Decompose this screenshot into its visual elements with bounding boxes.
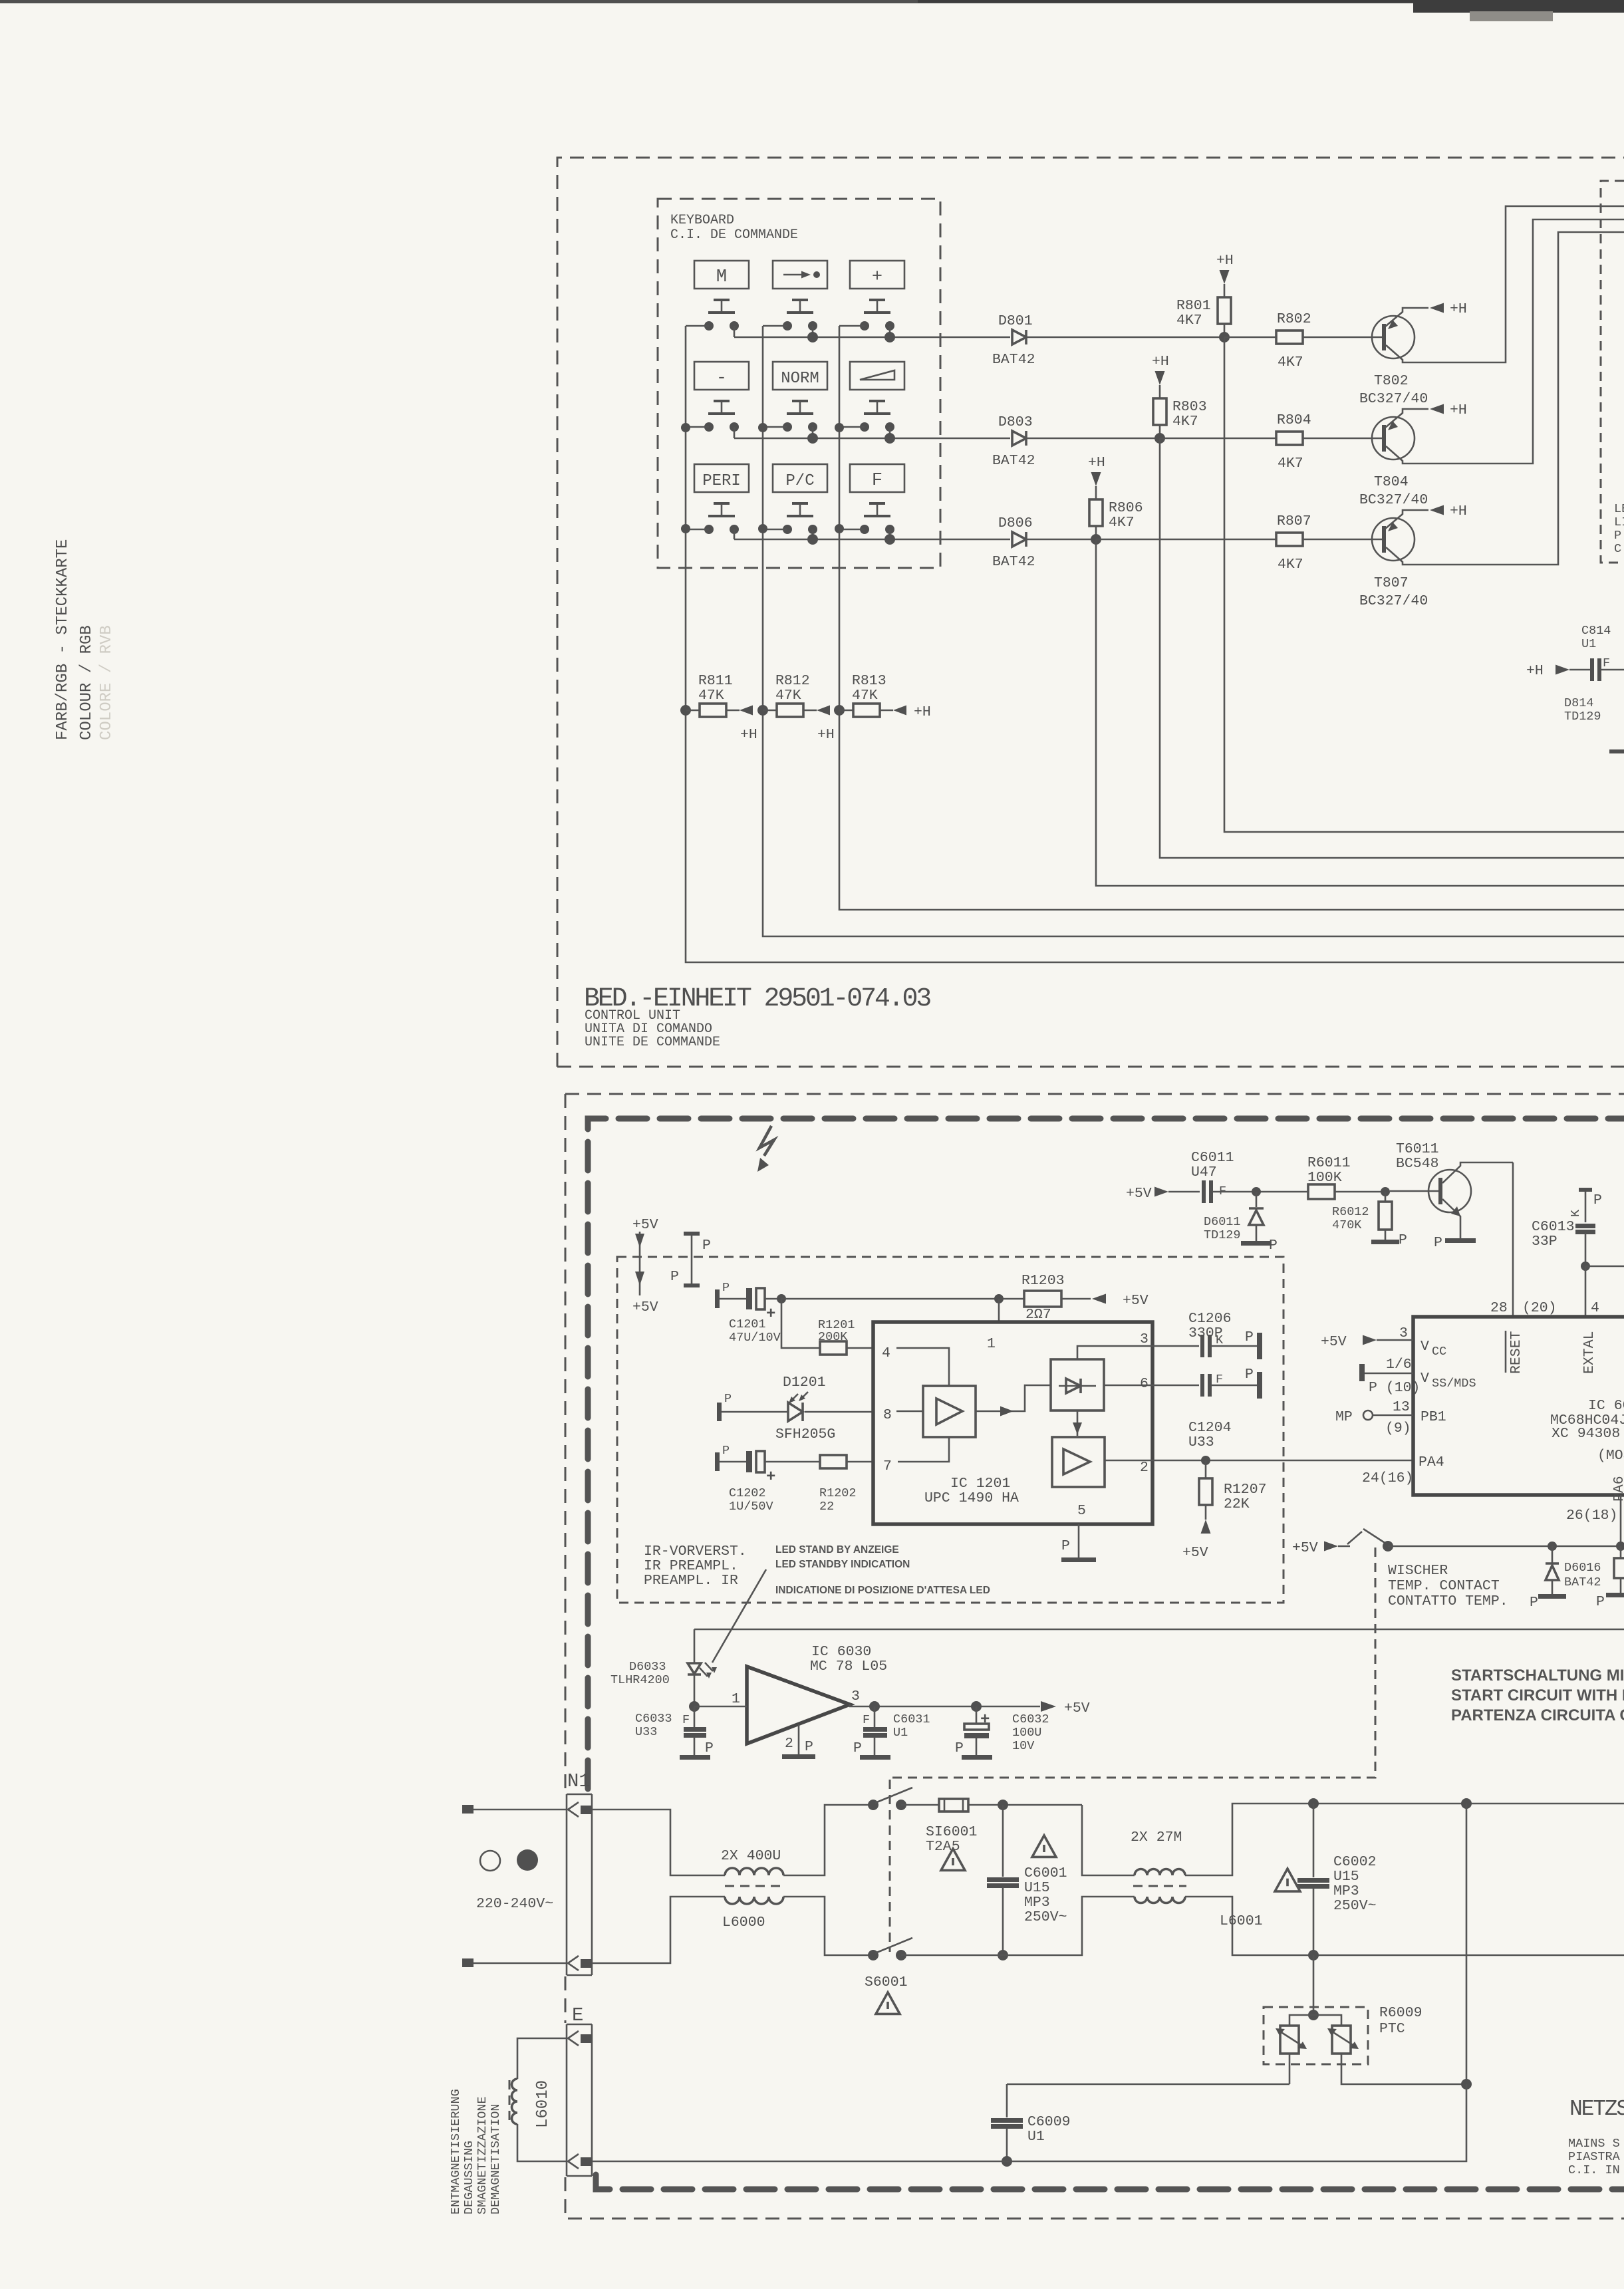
svg-text:F: F <box>682 1713 690 1727</box>
wire diode box down to amp2 <box>1077 1411 1079 1436</box>
svg-text:R1202: R1202 <box>819 1486 857 1500</box>
button - <box>694 362 749 390</box>
button + <box>850 261 904 289</box>
resistor R802 4K7 <box>1224 337 1276 338</box>
svg-text:MP: MP <box>1335 1409 1353 1425</box>
svg-text:+5V: +5V <box>1292 1540 1318 1556</box>
svg-text:2X 27M: 2X 27M <box>1131 1829 1182 1845</box>
svg-text:UNITE DE COMMANDE: UNITE DE COMMANDE <box>585 1035 720 1050</box>
PTC bottoms <box>1289 2054 1291 2084</box>
svg-text:28: 28 <box>1490 1300 1508 1316</box>
svg-text:+: + <box>766 1468 775 1486</box>
node R1207 <box>1201 1456 1210 1465</box>
wire pin4 down <box>1585 1266 1587 1317</box>
side text FARB/RGB-STECKKARTE rotated <box>54 539 116 740</box>
svg-text:7: 7 <box>883 1458 892 1474</box>
svg-text:2X 400U: 2X 400U <box>721 1848 781 1864</box>
diode D6011 TD129 <box>1256 1192 1258 1207</box>
wire contact drop r3c3 <box>889 529 891 539</box>
capacitor C6009 U1 <box>1006 2084 1008 2117</box>
photodiode D1201 SFH205G <box>717 1403 722 1421</box>
svg-text:R813: R813 <box>852 673 886 689</box>
svg-text:KEYBOARD: KEYBOARD <box>670 213 734 228</box>
svg-text:FARB/RGB - STECKKARTE: FARB/RGB - STECKKARTE <box>54 539 72 740</box>
capacitor C6011 U47 <box>1202 1180 1206 1203</box>
svg-text:4K7: 4K7 <box>1172 414 1198 430</box>
node R806 junction <box>1091 534 1101 545</box>
wire T807 collector to plug <box>1386 232 1624 565</box>
LED plug dashed box top right <box>1601 181 1624 563</box>
key switch contacts r3c3 <box>860 525 869 534</box>
wire E return line <box>592 2084 1466 2161</box>
svg-text:U33: U33 <box>1188 1434 1214 1450</box>
svg-text:C6001: C6001 <box>1024 1865 1067 1881</box>
transistor T804 BC327/40 PNP <box>1372 417 1415 460</box>
button F <box>850 464 904 492</box>
svg-text:IC 60: IC 60 <box>1588 1398 1624 1414</box>
svg-text:P: P <box>1614 529 1621 543</box>
svg-text:C.I. DE COMMANDE: C.I. DE COMMANDE <box>670 227 798 243</box>
svg-text:P: P <box>722 1281 730 1295</box>
svg-text:COLOUR / RGB: COLOUR / RGB <box>78 625 96 740</box>
node row3 key3 <box>884 534 895 545</box>
node C6001 top <box>998 1800 1008 1810</box>
svg-text:BAT42: BAT42 <box>992 554 1035 570</box>
wire T6011 collector to pin28 <box>1512 1162 1514 1317</box>
svg-text:250V~: 250V~ <box>1333 1898 1377 1914</box>
node pin4 <box>1581 1262 1590 1271</box>
button PERI <box>694 464 749 492</box>
PTC pair <box>1289 2015 1313 2026</box>
resistor R812 47K <box>757 705 768 716</box>
node R801 junction <box>1219 332 1230 342</box>
svg-text:R801: R801 <box>1176 298 1211 314</box>
mains terminal top <box>462 1805 474 1814</box>
node R803 junction <box>1154 433 1165 444</box>
E pin top <box>568 2031 579 2046</box>
wire top mains to L6001 <box>1082 1805 1135 1875</box>
mains switch S6001 pole 2 <box>868 1950 879 1960</box>
wire C1201 node to R1201 <box>781 1299 820 1348</box>
svg-text:PTC: PTC <box>1379 2021 1405 2037</box>
pin VSS/MDS <box>1359 1364 1365 1381</box>
svg-text:4K7: 4K7 <box>1176 313 1202 329</box>
wire amp2 to pin2 <box>1105 1460 1152 1462</box>
node row1 key2 <box>807 332 818 342</box>
node row1 key3 <box>884 332 895 342</box>
svg-text:P: P <box>724 1392 732 1406</box>
svg-text:+H: +H <box>740 727 757 743</box>
svg-text:P (10): P (10) <box>1369 1380 1420 1396</box>
svg-text:8: 8 <box>883 1407 892 1423</box>
resistor at right edge <box>1620 1546 1622 1558</box>
svg-text:L6000: L6000 <box>722 1915 765 1931</box>
svg-text:MP3: MP3 <box>1024 1895 1050 1911</box>
svg-text:P: P <box>1061 1538 1070 1554</box>
resistor R801 4K7 <box>1218 297 1231 324</box>
wire standby rail <box>694 1629 1624 1631</box>
svg-text:ENTMAGNETISIERUNG: ENTMAGNETISIERUNG <box>449 2089 463 2215</box>
key switch actuator r1c3 <box>869 299 885 301</box>
svg-text:BC327/40: BC327/40 <box>1359 492 1428 508</box>
node T6011 base <box>1381 1187 1390 1196</box>
svg-text:P: P <box>702 1238 711 1254</box>
wire contact drop r2c1 <box>734 427 736 438</box>
svg-text:P/C: P/C <box>785 472 814 490</box>
svg-text:PA6: PA6 <box>1611 1476 1624 1502</box>
svg-text:COLORE / RVB: COLORE / RVB <box>98 625 116 740</box>
svg-text:P: P <box>1245 1329 1254 1345</box>
node D6011 <box>1252 1187 1261 1196</box>
resistor R813 47K <box>834 705 845 716</box>
wire D801 to pull-up <box>1026 337 1224 338</box>
svg-text:4K7: 4K7 <box>1278 456 1303 471</box>
svg-text:C.I. IN: C.I. IN <box>1568 2163 1620 2177</box>
svg-text:SS/MDS: SS/MDS <box>1432 1377 1476 1391</box>
wire keyboard column 2 <box>763 326 1624 936</box>
svg-text:NETZS: NETZS <box>1569 2097 1624 2121</box>
N1 pin top <box>568 1802 579 1817</box>
svg-text:T802: T802 <box>1374 373 1409 389</box>
svg-text:P: P <box>1530 1595 1538 1611</box>
node C6002 top <box>1308 1798 1319 1809</box>
detector diode box <box>1051 1359 1104 1411</box>
svg-text:V: V <box>1421 1371 1429 1387</box>
svg-text:R807: R807 <box>1277 513 1311 529</box>
svg-text:U15: U15 <box>1333 1869 1359 1885</box>
svg-text:P: P <box>1269 1238 1278 1254</box>
key switch actuator r3c1 <box>714 502 730 505</box>
capacitor C6002 U15 MP3 250V <box>1313 1804 1315 1877</box>
svg-text:D803: D803 <box>998 414 1033 430</box>
svg-text:E: E <box>572 2004 583 2026</box>
wire left contact tie r3c2 <box>763 529 787 531</box>
svg-text:47U/10V: 47U/10V <box>729 1331 781 1345</box>
capacitor C1201 47U/10V <box>715 1289 720 1308</box>
wire keyboard column 1 <box>686 326 1624 962</box>
wire pin 26 down to temp contact line <box>1620 1495 1622 1546</box>
warning triangle C6002 <box>1275 1869 1300 1891</box>
R6009 PTC dashed box <box>1264 2007 1368 2064</box>
svg-text:+H: +H <box>1526 663 1544 679</box>
svg-text:U1: U1 <box>1581 637 1596 651</box>
node C6031 <box>869 1701 880 1712</box>
key switch actuator r2c3 <box>869 400 885 402</box>
IC1201 UPC 1490 HA box <box>873 1322 1152 1524</box>
svg-text:R6011: R6011 <box>1307 1155 1351 1171</box>
start circuit dashed box <box>890 1548 1375 1778</box>
svg-text:+H: +H <box>1088 455 1105 471</box>
svg-text:+5V: +5V <box>1182 1545 1208 1561</box>
wire left contact tie r2c1 <box>686 426 709 428</box>
button arrow-dot <box>773 261 827 289</box>
svg-text:P: P <box>1593 1192 1602 1208</box>
svg-text:LE: LE <box>1614 502 1624 516</box>
svg-text:+H: +H <box>1216 253 1234 269</box>
svg-text:CC: CC <box>1432 1345 1446 1359</box>
svg-text:4K7: 4K7 <box>1278 557 1303 573</box>
key switch contacts r1c2 <box>783 321 792 331</box>
svg-text:100U: 100U <box>1012 1726 1041 1740</box>
svg-text:220-240V~: 220-240V~ <box>476 1896 553 1912</box>
node column 1 row3 <box>681 524 690 533</box>
wire right vertical to PTC node <box>1466 1804 1468 2084</box>
svg-text:C1204: C1204 <box>1188 1420 1232 1436</box>
svg-text:PB1: PB1 <box>1421 1409 1446 1425</box>
svg-text:P: P <box>805 1739 813 1755</box>
svg-text:2: 2 <box>1140 1460 1149 1476</box>
node right edge resistor <box>1616 1542 1624 1551</box>
svg-text:22K: 22K <box>1224 1496 1250 1512</box>
wire bottom mains to L6001 <box>901 1897 1135 1955</box>
svg-text:SMAGNETIZZAZIONE: SMAGNETIZZAZIONE <box>475 2096 489 2215</box>
svg-text:D6033: D6033 <box>629 1660 666 1674</box>
svg-text:F: F <box>1603 656 1610 670</box>
svg-text:INDICATIONE DI POSIZIONE D'ATT: INDICATIONE DI POSIZIONE D'ATTESA LED <box>775 1585 990 1596</box>
E pin bottom <box>568 2154 579 2169</box>
svg-text:TD129: TD129 <box>1204 1228 1241 1242</box>
warning triangle S6001 <box>876 1992 900 2014</box>
key switch actuator r1c1 <box>714 299 730 301</box>
svg-text:-: - <box>716 368 727 388</box>
wire R807 to T807 base <box>1303 539 1384 541</box>
svg-text:U33: U33 <box>635 1725 657 1739</box>
svg-text:SI6001: SI6001 <box>926 1824 977 1840</box>
wire left contact tie r1c1 <box>686 325 709 327</box>
amplifier stage 2 <box>1052 1437 1105 1487</box>
node D6016 <box>1548 1542 1557 1551</box>
svg-text:3: 3 <box>851 1688 860 1704</box>
key switch contacts r2c2 <box>783 422 792 432</box>
node PTC right <box>1461 2079 1472 2089</box>
svg-text:IR PREAMPL.: IR PREAMPL. <box>644 1558 738 1574</box>
capacitor C1202 1U/50V <box>715 1452 720 1471</box>
resistor R807 4K7 <box>1096 539 1276 541</box>
svg-text:T807: T807 <box>1374 575 1409 591</box>
svg-text:BC327/40: BC327/40 <box>1359 593 1428 609</box>
isolation thick dashed line bottom <box>596 2175 1624 2189</box>
svg-text:P: P <box>705 1740 714 1756</box>
N1 pin bottom <box>568 1956 579 1970</box>
svg-text:3: 3 <box>1140 1331 1149 1347</box>
svg-text:4K7: 4K7 <box>1109 515 1135 531</box>
svg-text:MP3: MP3 <box>1333 1883 1359 1899</box>
svg-text:C814: C814 <box>1581 624 1611 638</box>
node IC6030 input <box>689 1701 700 1712</box>
svg-text:24(16): 24(16) <box>1362 1470 1413 1486</box>
svg-text:D814: D814 <box>1564 696 1593 710</box>
svg-text:+H: +H <box>914 704 931 720</box>
svg-text:+: + <box>872 267 882 287</box>
wire left contact tie r2c2 <box>763 426 787 428</box>
svg-text:R6009: R6009 <box>1379 2005 1422 2021</box>
wire left contact tie r3c1 <box>686 529 709 531</box>
wire contact drop r1c1 <box>734 326 736 337</box>
svg-text:MAINS S: MAINS S <box>1568 2137 1620 2151</box>
svg-text:F: F <box>863 1713 870 1727</box>
svg-text:D806: D806 <box>998 515 1033 531</box>
resistor R803 4K7 <box>1153 398 1166 425</box>
svg-text:C6033: C6033 <box>635 1712 672 1726</box>
node column 2 row2 <box>758 423 767 432</box>
svg-text:R811: R811 <box>698 673 733 689</box>
wire keyboard row 1 to diode D801 <box>734 337 1010 338</box>
svg-text:R804: R804 <box>1277 412 1311 428</box>
svg-text:5: 5 <box>1077 1503 1086 1519</box>
svg-text:D6011: D6011 <box>1204 1215 1241 1229</box>
key switch contacts r2c1 <box>704 422 714 432</box>
wire keyboard row 2 to diode D803 <box>734 438 1010 440</box>
svg-text:C6011: C6011 <box>1191 1150 1234 1166</box>
svg-text:TEMP. CONTACT: TEMP. CONTACT <box>1388 1578 1500 1594</box>
svg-text:LED STAND BY ANZEIGE: LED STAND BY ANZEIGE <box>775 1544 899 1555</box>
wire L6001 top out <box>1185 1804 1624 1875</box>
svg-text:C1201: C1201 <box>729 1317 766 1331</box>
svg-text:PERI: PERI <box>702 472 741 490</box>
svg-text:START CIRCUIT WITH I: START CIRCUIT WITH I <box>1451 1686 1624 1704</box>
svg-text:D6016: D6016 <box>1564 1561 1601 1575</box>
wire T802 collector to plug <box>1386 206 1624 362</box>
svg-text:33P: 33P <box>1532 1234 1557 1250</box>
svg-text:PIASTRA: PIASTRA <box>1568 2150 1621 2164</box>
svg-text:P: P <box>670 1269 679 1285</box>
svg-text:T804: T804 <box>1374 474 1409 490</box>
svg-text:IR-VORVERST.: IR-VORVERST. <box>644 1544 747 1559</box>
node pin1 rail <box>994 1294 1004 1303</box>
capacitor C1204 U33 on pin6 <box>1152 1385 1199 1387</box>
key switch contacts r1c1 <box>704 321 714 331</box>
switch link dashed <box>889 1780 891 1952</box>
key switch contacts r1c3 <box>860 321 869 331</box>
wire D803 to pull-up <box>1026 438 1160 440</box>
svg-text:R1207: R1207 <box>1224 1482 1267 1498</box>
svg-text:47K: 47K <box>775 688 801 704</box>
svg-text:U1: U1 <box>1027 2129 1045 2145</box>
node C1201 <box>777 1294 786 1303</box>
svg-text:D1201: D1201 <box>783 1375 826 1391</box>
svg-text:470K: 470K <box>1332 1218 1362 1232</box>
svg-text:L6010: L6010 <box>534 2080 552 2128</box>
power unit dashed box <box>565 1093 1624 1095</box>
wire R801 node down to bus <box>1224 337 1624 832</box>
svg-text:26(18): 26(18) <box>1566 1508 1617 1524</box>
svg-text:TLHR4200: TLHR4200 <box>610 1673 670 1687</box>
warning triangle C6001 <box>1032 1835 1056 1857</box>
node top rail right <box>1461 1798 1472 1809</box>
wire D806 to pull-up <box>1026 539 1096 541</box>
wire pin1 drop <box>998 1299 1000 1322</box>
svg-text:P: P <box>955 1740 964 1756</box>
svg-text:(9): (9) <box>1385 1420 1411 1436</box>
svg-text:N1: N1 <box>567 1770 591 1792</box>
wire contact drop r2c2 <box>812 427 814 438</box>
svg-text:C6032: C6032 <box>1012 1712 1049 1726</box>
resistor R6012 470K <box>1385 1192 1387 1202</box>
svg-text:M: M <box>716 267 727 287</box>
button NORM <box>773 362 827 390</box>
P-P feedthrough stub <box>684 1232 700 1236</box>
svg-text:T6011: T6011 <box>1396 1141 1439 1157</box>
ground P for D814 <box>1609 749 1624 753</box>
key switch actuator r1c2 <box>792 299 808 301</box>
svg-text:IC 6030: IC 6030 <box>811 1644 871 1660</box>
svg-text:NORM: NORM <box>781 370 819 388</box>
svg-text:1: 1 <box>987 1336 996 1352</box>
resistor R1202 22 <box>820 1455 847 1468</box>
fuse SI6001 T2A5 <box>901 1804 939 1806</box>
svg-text:D801: D801 <box>998 313 1033 329</box>
wire amp1 output <box>976 1385 1051 1411</box>
svg-text:R6012: R6012 <box>1332 1205 1369 1219</box>
node column 3 row3 <box>835 524 844 533</box>
callout line to LED <box>712 1569 766 1663</box>
wire L6001 bottom out <box>1185 1897 1624 1955</box>
node C6001 bottom <box>998 1950 1008 1960</box>
svg-text:BAT42: BAT42 <box>992 352 1035 368</box>
key switch contacts r3c1 <box>704 525 714 534</box>
svg-text:4: 4 <box>882 1345 890 1361</box>
svg-text:+H: +H <box>1152 354 1169 370</box>
svg-text:UPC 1490 HA: UPC 1490 HA <box>924 1490 1019 1506</box>
svg-text:4: 4 <box>1591 1300 1599 1316</box>
wire R803 node down to bus <box>1160 438 1624 858</box>
wire T804 collector to plug <box>1386 219 1624 464</box>
key switch actuator r3c3 <box>869 502 885 505</box>
pin 2 ground IC6030 <box>798 1724 800 1754</box>
svg-text:C6013: C6013 <box>1532 1219 1575 1235</box>
svg-text:P: P <box>1596 1594 1605 1610</box>
svg-text:V: V <box>1421 1339 1429 1355</box>
degaussing caption rotated <box>449 2089 503 2215</box>
mains terminal bottom <box>462 1958 474 1967</box>
wire top rail to R1203 <box>781 1298 1024 1300</box>
svg-text:+H: +H <box>1450 301 1467 317</box>
svg-text:BC327/40: BC327/40 <box>1359 391 1428 407</box>
svg-text:+5V: +5V <box>632 1217 658 1233</box>
diode D803 BAT42 <box>1012 431 1026 446</box>
svg-text:PREAMPL. IR: PREAMPL. IR <box>644 1573 738 1589</box>
node C6002 bottom <box>1308 1950 1319 1960</box>
svg-text:4K7: 4K7 <box>1278 354 1303 370</box>
wire left contact tie r1c3 <box>839 325 865 327</box>
svg-text:250V~: 250V~ <box>1024 1909 1067 1925</box>
svg-text:2: 2 <box>785 1736 793 1752</box>
resistor R806 4K7 <box>1089 499 1103 526</box>
capacitor C6001 U15 MP3 <box>1002 1805 1004 1877</box>
key switch contacts r2c3 <box>860 422 869 432</box>
wire left contact tie r3c3 <box>839 529 865 531</box>
key switch actuator r2c2 <box>792 400 808 402</box>
wire contact drop r1c3 <box>889 326 891 337</box>
wire C6009 top rail <box>1007 2084 1289 2086</box>
svg-text:C1202: C1202 <box>729 1486 766 1500</box>
svg-text:(20): (20) <box>1522 1300 1557 1316</box>
wire keyboard row 3 to diode D806 <box>734 539 1010 541</box>
svg-text:C6002: C6002 <box>1333 1854 1377 1870</box>
svg-text:47K: 47K <box>698 688 724 704</box>
resistor R811 47K <box>680 705 691 716</box>
svg-text:MC 78 L05: MC 78 L05 <box>810 1659 887 1675</box>
node column 2 row3 <box>758 524 767 533</box>
svg-text:+5V: +5V <box>1126 1186 1152 1202</box>
svg-text:+5V: +5V <box>1321 1334 1347 1350</box>
svg-text:EXTAL: EXTAL <box>1581 1331 1597 1374</box>
wire pin2 to PA4 <box>1152 1460 1413 1462</box>
svg-text:DEGAUSSING: DEGAUSSING <box>462 2141 476 2215</box>
svg-text:U1: U1 <box>893 1726 908 1740</box>
node column 3 row2 <box>835 423 844 432</box>
scan edge band top <box>0 0 1624 3</box>
